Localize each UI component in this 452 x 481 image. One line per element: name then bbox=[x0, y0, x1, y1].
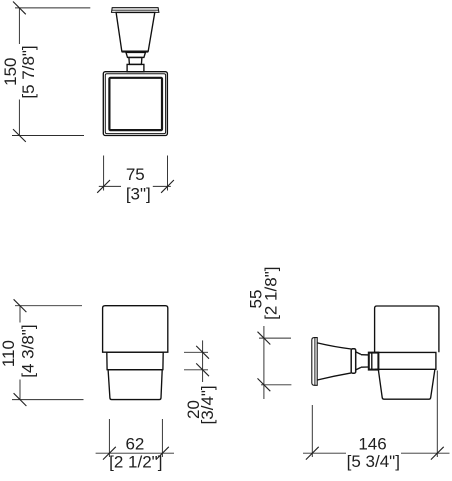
bell step (front view) bbox=[126, 53, 145, 58]
bell rim (side view) bbox=[351, 349, 356, 374]
tick left (dim 146) bbox=[306, 447, 319, 460]
tick bottom (dim 150) bbox=[13, 129, 26, 142]
dimension line (dim 20) bbox=[202, 340, 204, 382]
dimension line (dim 146) bbox=[303, 452, 450, 454]
svg-text:150: 150 bbox=[1, 58, 20, 86]
svg-text:[2 1/2"]: [2 1/2"] bbox=[109, 453, 162, 472]
extension line bottom (dim 150) bbox=[12, 135, 84, 137]
extension line top (dim 55) bbox=[259, 337, 291, 339]
extension line top (dim 20) bbox=[184, 351, 208, 353]
tumbler holder band section (front view) bbox=[107, 352, 163, 370]
dimension line (dim 55) bbox=[263, 326, 265, 399]
tumbler lower section (side view) bbox=[378, 369, 435, 399]
svg-text:[3"]: [3"] bbox=[126, 184, 151, 203]
tick right (dim 75) bbox=[161, 180, 174, 193]
svg-text:146: 146 bbox=[358, 434, 386, 453]
svg-text:[5 3/4"]: [5 3/4"] bbox=[347, 452, 400, 471]
extension line right (dim 62) bbox=[161, 419, 163, 457]
dimension line (dim 150) bbox=[18, 8, 20, 136]
neck (front view) bbox=[129, 57, 142, 64]
square ring outer (front view) bbox=[103, 72, 167, 136]
square ring middle contour (front view) bbox=[105, 74, 165, 134]
dimension line (dim 62) bbox=[96, 452, 174, 454]
bell body (front view) bbox=[116, 12, 155, 51]
tumbler upper section (front view) bbox=[103, 306, 168, 353]
mounting block (side view) bbox=[369, 353, 379, 370]
tumbler upper section (side view) bbox=[375, 306, 439, 352]
dimension line (dim 75) bbox=[99, 185, 171, 187]
svg-text:[5 7/8"]: [5 7/8"] bbox=[19, 45, 38, 98]
svg-text:[2 1/8"]: [2 1/8"] bbox=[262, 267, 281, 320]
bell body (side view) bbox=[317, 343, 351, 380]
svg-text:62: 62 bbox=[125, 434, 144, 453]
extension line left (dim 146) bbox=[311, 405, 313, 457]
tick left (dim 75) bbox=[97, 180, 110, 193]
tick bottom (dim 110) bbox=[14, 393, 27, 406]
extension line bottom (dim 20) bbox=[184, 369, 208, 371]
tick top (dim 55) bbox=[258, 332, 271, 345]
tick bottom (dim 20) bbox=[196, 363, 209, 376]
extension line right (dim 75) bbox=[167, 156, 169, 191]
extension line right (dim 146) bbox=[436, 371, 438, 458]
svg-text:75: 75 bbox=[126, 165, 145, 184]
holder ring band (side view) bbox=[375, 352, 436, 369]
svg-text:[4 3/8"]: [4 3/8"] bbox=[19, 324, 38, 377]
extension line bottom (dim 110) bbox=[12, 399, 84, 401]
tick top (dim 150) bbox=[13, 2, 26, 15]
tick right (dim 62) bbox=[156, 447, 169, 460]
square ring inner opening (front view) bbox=[109, 78, 162, 130]
tick left (dim 62) bbox=[103, 447, 116, 460]
collar (front view) bbox=[127, 64, 144, 71]
neck (side view) bbox=[361, 355, 369, 368]
bell step (side view) bbox=[356, 352, 361, 370]
tick bottom (dim 55) bbox=[258, 378, 271, 391]
extension line left (dim 75) bbox=[103, 156, 105, 191]
tumbler lower section (front view) bbox=[108, 370, 162, 400]
dimension line (dim 110) bbox=[19, 306, 21, 400]
wall flange plate (front view) bbox=[112, 8, 159, 13]
tick top (dim 20) bbox=[196, 346, 209, 359]
wall flange plate (side view) bbox=[312, 338, 317, 386]
tick right (dim 146) bbox=[431, 447, 444, 460]
extension line left (dim 62) bbox=[108, 419, 110, 457]
svg-text:[3/4"]: [3/4"] bbox=[198, 385, 217, 424]
extension line top (dim 110) bbox=[15, 305, 82, 307]
tick top (dim 110) bbox=[14, 299, 27, 312]
svg-text:110: 110 bbox=[0, 340, 18, 367]
extension line top (dim 150) bbox=[15, 7, 90, 9]
extension line bottom (dim 55) bbox=[261, 384, 291, 386]
